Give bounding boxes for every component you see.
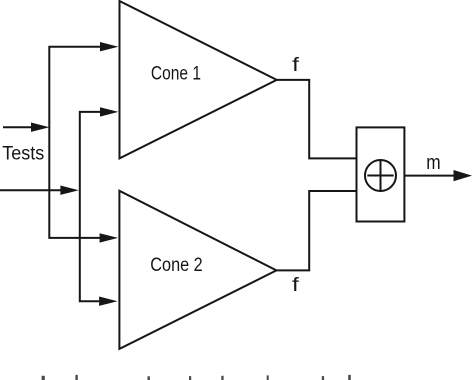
svg-text:Cone 2: Cone 2 [150, 255, 202, 276]
wire bus 1 (fanout to Cone 1 and Cone 2) [49, 42, 118, 243]
wire output m [404, 170, 472, 181]
cone 1 (logic cone triangle) [120, 1, 277, 158]
caption (cut off at bottom edge) ascender ticks [42, 375, 351, 380]
wire bus 2 (fanout to Cone 1 and Cone 2) [80, 107, 119, 306]
XOR compactor box U1 [357, 127, 405, 221]
svg-text:f: f [292, 275, 300, 296]
svg-text:Cone 1: Cone 1 [151, 64, 201, 85]
wire test input 2 [0, 186, 79, 195]
svg-text:m: m [426, 152, 440, 174]
wire cone 1 output f to XOR box [277, 80, 357, 158]
cone 2 (logic cone triangle) [119, 191, 276, 349]
wire test input 1 [3, 123, 49, 132]
svg-text:Tests: Tests [2, 144, 44, 165]
svg-text:f: f [292, 55, 300, 76]
wire cone 2 output f to XOR box [276, 191, 356, 270]
XOR symbol circle-plus [365, 160, 396, 191]
